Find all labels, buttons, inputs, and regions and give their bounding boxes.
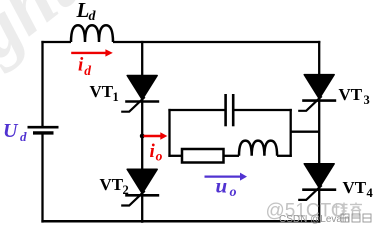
thyristor VT4 — [298, 164, 336, 223]
svg-text:o: o — [156, 149, 163, 164]
capacitor right plate — [232, 94, 235, 126]
label uo — [216, 174, 237, 201]
wire left leg junction to VT2 — [141, 136, 143, 170]
label id — [78, 55, 91, 79]
wire top rail left segment — [41, 41, 71, 43]
wire output tap to right leg — [291, 131, 320, 133]
label VT3 — [339, 85, 370, 107]
wire load loop top branch left — [168, 109, 225, 111]
svg-text:1: 1 — [113, 90, 119, 104]
wire right leg top — [318, 41, 320, 76]
svg-text:VT: VT — [343, 178, 367, 197]
svg-text:u: u — [216, 174, 228, 198]
svg-text:CSDN @Levain: CSDN @Levain — [279, 214, 350, 225]
wire load loop bottom branch left — [168, 155, 182, 157]
capacitor left plate — [224, 94, 227, 126]
svg-text:i: i — [150, 141, 156, 162]
svg-text:d: d — [89, 9, 97, 24]
label Ld — [76, 0, 97, 24]
wire top rail right segment — [113, 41, 320, 43]
inductor L load — [239, 141, 277, 156]
wire left leg top — [141, 41, 143, 77]
watermark CJK char bo — [334, 203, 348, 217]
wire left vertical lower — [41, 134, 43, 222]
svg-text:d: d — [84, 63, 91, 78]
svg-text:i: i — [78, 55, 84, 76]
thyristor VT2 — [121, 169, 159, 223]
svg-text:2: 2 — [123, 183, 129, 197]
svg-text:U: U — [3, 120, 19, 142]
watermark @51CTO bottom right — [266, 201, 346, 222]
label VT4 — [343, 178, 374, 200]
wire load loop top branch right — [233, 109, 292, 111]
wire load loop left vertical — [168, 109, 170, 157]
resistor R load box — [182, 149, 224, 163]
battery Ud short plate — [33, 131, 54, 134]
svg-text:VT: VT — [339, 85, 363, 104]
wire bottom rail — [41, 220, 320, 223]
wire red current arrow io (on wire) — [144, 132, 168, 140]
svg-text:VT: VT — [100, 175, 124, 194]
node midpoint left leg junction dot — [140, 134, 145, 139]
watermark CJK char ke — [350, 203, 362, 217]
svg-text:3: 3 — [364, 93, 370, 107]
thyristor VT3 — [298, 75, 336, 165]
svg-text:d: d — [20, 129, 27, 144]
label VT1 — [90, 82, 119, 104]
label VT2 — [100, 175, 129, 197]
watermark CSDN small — [279, 214, 350, 225]
svg-text:VT: VT — [90, 82, 114, 101]
inductor Ld — [71, 25, 113, 42]
watermark corner diagonal text — [0, 0, 91, 88]
svg-text:4: 4 — [367, 186, 374, 200]
label io — [150, 141, 163, 164]
red current arrow id — [71, 49, 113, 56]
wire load loop right vertical — [290, 109, 292, 157]
battery Ud long plate — [28, 126, 59, 129]
wire resistor to inductor — [224, 155, 240, 157]
label Ud — [3, 120, 27, 144]
wire left vertical upper (to battery) — [41, 41, 43, 126]
thyristor VT1 — [121, 76, 159, 137]
svg-text:o: o — [230, 185, 237, 200]
purple voltage arrow uo — [205, 173, 248, 181]
svg-text:L: L — [76, 0, 90, 22]
watermark CJK blocks small — [341, 214, 371, 222]
wire inductor to loop right — [277, 155, 292, 157]
